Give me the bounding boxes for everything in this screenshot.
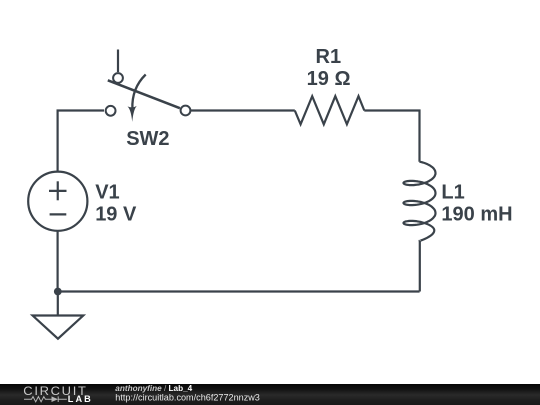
switch right terminal — [181, 106, 191, 116]
footer bar — [0, 384, 540, 405]
svg-text:LAB: LAB — [68, 394, 93, 404]
svg-text:19 V: 19 V — [95, 203, 137, 225]
svg-text:R1: R1 — [316, 46, 342, 68]
svg-text:V1: V1 — [95, 181, 119, 203]
switch actuator arrowhead — [128, 106, 137, 122]
switch SW2 — [106, 50, 191, 122]
wire top-left (node from V1+ to switch left terminal) — [58, 111, 104, 173]
svg-text:19 Ω: 19 Ω — [307, 68, 351, 90]
wire stub to switch top terminal — [117, 50, 119, 73]
resistor R1 — [295, 96, 365, 124]
wire switch to resistor — [190, 109, 294, 111]
wire bottom (ground net) — [58, 290, 420, 292]
switch top terminal — [113, 73, 123, 83]
wire junction to ground — [57, 292, 59, 316]
inductor L1 — [404, 162, 436, 241]
switch actuator arrow arc — [132, 75, 145, 110]
wire inductor to bottom-right corner — [419, 241, 421, 292]
junction dot — [54, 288, 62, 296]
ground — [33, 316, 84, 339]
svg-text:http://circuitlab.com/ch6f2772: http://circuitlab.com/ch6f2772nnzw3 — [115, 392, 260, 402]
voltage source V1 — [28, 172, 87, 231]
logo resistor-diode squiggle — [24, 396, 67, 402]
svg-text:190 mH: 190 mH — [441, 203, 512, 225]
switch left terminal — [106, 106, 116, 116]
wire resistor to inductor (top-right corner) — [364, 111, 419, 162]
switch blade — [108, 80, 180, 108]
svg-text:SW2: SW2 — [126, 128, 169, 150]
svg-text:L1: L1 — [441, 182, 464, 204]
wire V1- to junction — [56, 231, 58, 292]
